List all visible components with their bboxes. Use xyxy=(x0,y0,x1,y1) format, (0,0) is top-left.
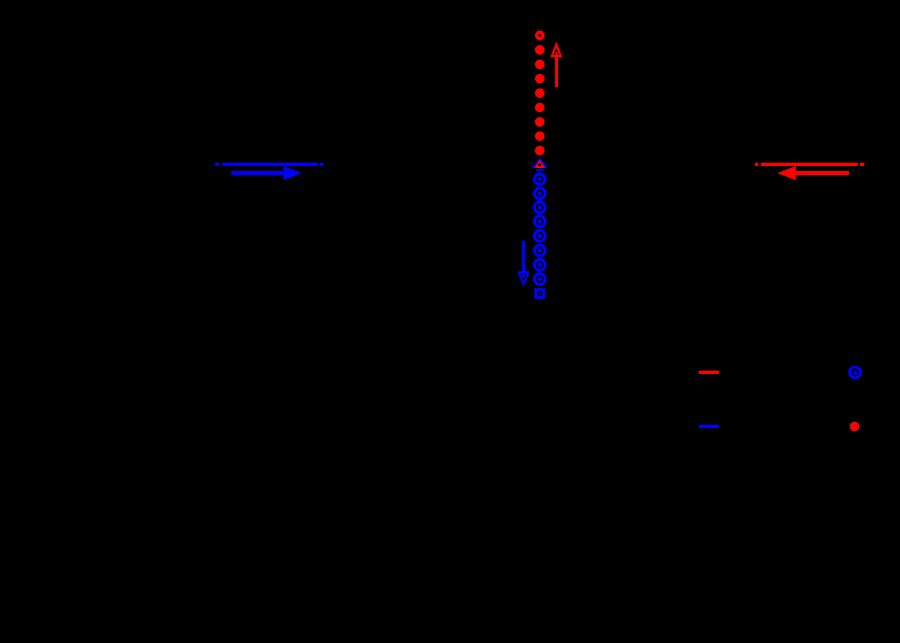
blue downward velocity arrow (hollow head) xyxy=(517,241,530,287)
red upward velocity arrow (hollow head) xyxy=(550,41,562,87)
red positive charge dot 6 xyxy=(535,103,545,113)
red positive charge dot 4 xyxy=(535,74,545,84)
small blue dash marker below junction xyxy=(536,169,544,171)
blue current arrow pointing right (left side) xyxy=(231,166,302,180)
red positive charge dot 7 xyxy=(535,117,545,127)
legend: red line sample xyxy=(699,371,719,374)
blue electron marker 2 xyxy=(534,188,545,199)
red dashed wire segment (right) xyxy=(755,163,864,166)
blue square marker (bottom of chain) xyxy=(534,288,545,299)
red positive charge dot 9 xyxy=(535,146,545,156)
red positive charge dot 2 xyxy=(535,45,545,55)
blue electron marker 8 xyxy=(534,274,545,285)
blue dashed wire segment (left) xyxy=(215,163,324,166)
red positive charge dot 1 (top, open center) xyxy=(535,31,545,41)
red positive charge dot 8 xyxy=(535,131,545,141)
legend: blue electron marker sample xyxy=(850,367,861,378)
junction marker: blue triangle outline with red triangle xyxy=(534,159,546,168)
blue electron marker 5 xyxy=(534,231,545,242)
blue electron marker 4 xyxy=(534,216,545,227)
blue electron marker 7 xyxy=(534,259,545,270)
red positive charge dot 5 xyxy=(535,88,545,98)
red current arrow pointing left (right side) xyxy=(777,166,849,180)
blue electron marker 1 xyxy=(534,174,545,185)
legend: red positive charge marker sample xyxy=(850,422,860,432)
blue electron marker 3 xyxy=(534,202,545,213)
red positive charge dot 3 xyxy=(535,59,545,69)
legend: blue line sample xyxy=(699,425,719,428)
blue electron marker 6 xyxy=(534,245,545,256)
